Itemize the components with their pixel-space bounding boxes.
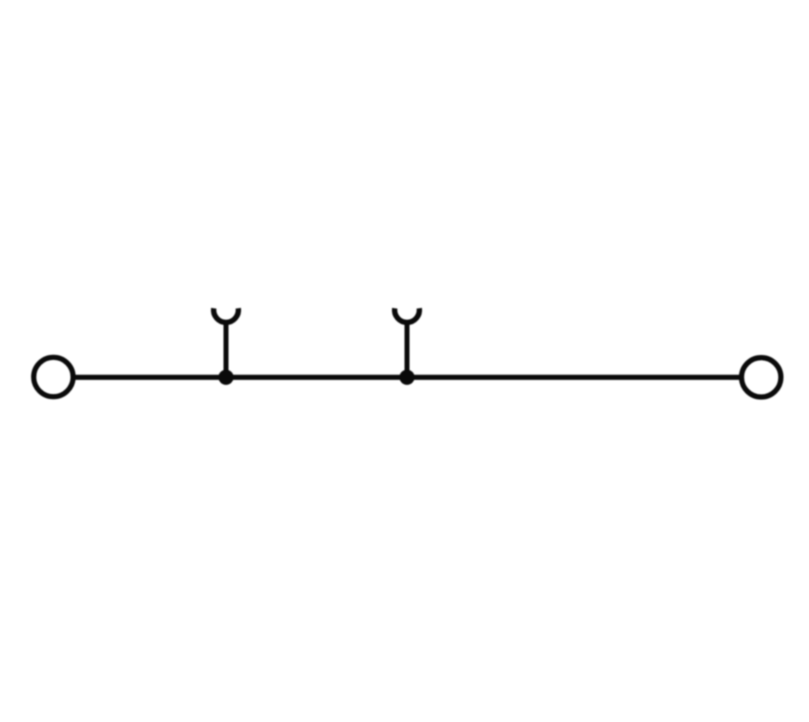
test tap TP2: stem wire (405, 321, 410, 378)
junction node at TP1 (218, 370, 233, 385)
terminal X2 (right circle) (742, 358, 781, 397)
test tap TP1: stem wire (224, 321, 229, 378)
terminal X1 (left circle) (34, 357, 73, 396)
test tap TP2: fork arc (395, 308, 420, 322)
test tap TP1: fork arc (214, 308, 239, 322)
wire: main horizontal conductor (73, 375, 741, 380)
junction node at TP2 (399, 370, 414, 385)
